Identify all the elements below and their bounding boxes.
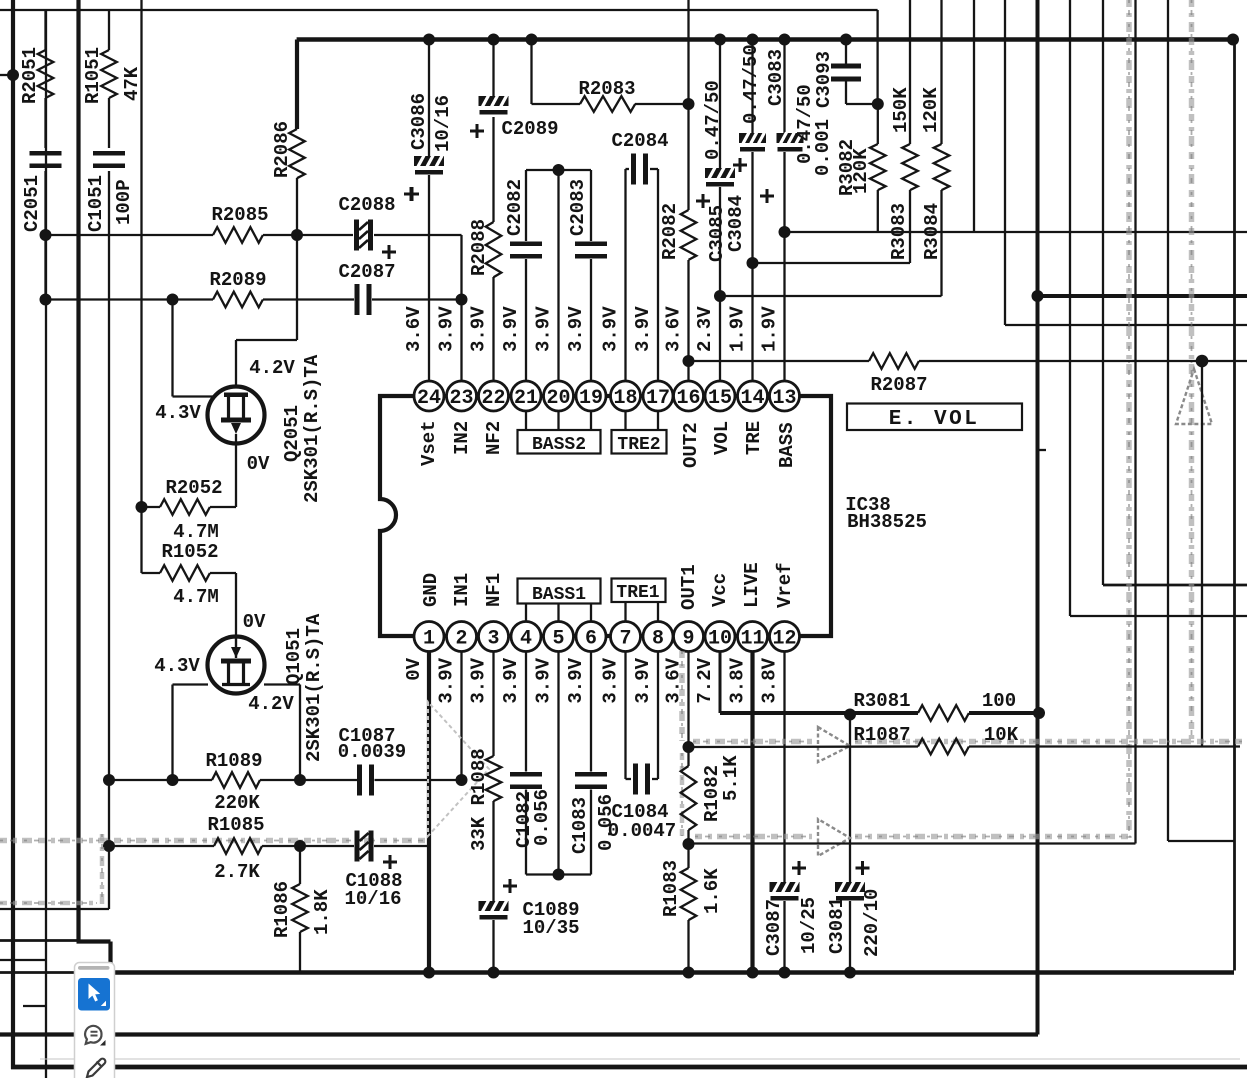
resistor R2052 4.7M [160,499,210,515]
svg-text:23: 23 [449,387,473,410]
transistor Q2051 2SK301(R.S)TA [208,387,265,444]
resistor R1086 1.8K [292,884,308,932]
svg-text:1.9V: 1.9V [759,306,781,352]
svg-text:R2083: R2083 [578,78,635,100]
svg-text:C1051: C1051 [85,175,107,232]
wire stub y=1006 [23,1005,46,1007]
node R1085/R1086 junction [294,840,306,852]
resistor R2085 [213,227,263,243]
node x=1037.5/y=296 [1032,290,1044,302]
node R2089/Q2051 gate [167,294,179,306]
wire C2082/C2083 tie bar y=170 [526,169,591,171]
pin 21 [511,381,541,411]
wire R1085 row y=846 [109,845,214,847]
gray highlighted trace column x=1191.5 [1189,0,1195,741]
svg-text:1: 1 [423,628,435,651]
resistor R1083 1.6K [681,868,697,920]
node R1089/IN1 junction [456,774,468,786]
svg-text:3.9V: 3.9V [436,306,458,352]
pin 10 [705,622,735,652]
node R2087/x=1202 [1196,355,1209,368]
capacitor C2088 (electrolytic) [354,220,373,251]
svg-text:BH38525: BH38525 [847,511,927,533]
gray highlighted trace R1087 row [693,739,812,745]
svg-text:150K: 150K [890,87,912,133]
pin 5 [544,622,574,652]
capacitor C1089 (electrolytic) 10/35 [479,901,509,920]
pin 14 [738,381,768,411]
wire bottommost thick rail y=1067 [11,1065,1247,1070]
svg-text:14: 14 [740,387,764,410]
svg-text:17: 17 [646,387,670,410]
node R2089 left [40,294,52,306]
wire row y=263 pin14 to R3083 [753,262,911,264]
svg-text:47K: 47K [121,66,143,101]
svg-text:C2084: C2084 [611,130,668,152]
pin 7 [611,622,641,652]
wire vertical rail x=46 [45,10,47,1078]
pin 11 [738,622,768,652]
wire pin16 column (OUT2) from top edge, R2082 [687,0,689,210]
wire C3093 column x=846 [845,40,847,65]
wire R2051 branch x=45.5 [44,10,46,50]
wire pin10 Vcc drop [719,652,722,714]
svg-text:4.2V: 4.2V [249,357,295,379]
wire pin15 column (VOL) with C3085 [719,40,721,169]
svg-text:0V: 0V [403,657,425,680]
svg-text:20: 20 [546,387,570,410]
wire R2052 row y=507 [142,506,161,508]
transistor Q1051 2SK301(R.S)TA [208,637,265,694]
svg-text:3.6V: 3.6V [403,306,425,352]
node tie bar/pin20 [553,164,565,176]
capacitor C1051 100P [93,151,125,156]
svg-text:9: 9 [682,628,694,651]
wire row y=325 [1005,324,1247,326]
wire left thick vertical rail x=13 [11,0,15,1069]
E.VOL block label box [847,404,1022,431]
svg-text:R2089: R2089 [209,269,266,291]
wire small stub right of x=1037.5 at y=450 [1038,449,1047,451]
svg-text:IN1: IN1 [451,573,473,607]
svg-text:100P: 100P [113,179,135,225]
wire R2085 row y=235 [46,234,214,236]
svg-text:7: 7 [619,628,631,651]
svg-text:1.9V: 1.9V [727,306,749,352]
svg-text:OUT1: OUT1 [678,564,700,610]
node R1089/Q1051 gate [167,774,179,786]
wire R1089 row y=780 [109,779,212,781]
svg-text:4.7M: 4.7M [173,586,219,608]
svg-text:220/10: 220/10 [861,889,883,957]
svg-text:C3087: C3087 [763,899,785,956]
wire vertical x=974 [973,0,975,232]
node bus/pin24 [423,34,435,46]
wire vertical x=1135.5 [1134,0,1136,844]
pin 18 [611,381,641,411]
UI comment tool icon [85,1026,101,1044]
wire Q2051 drain riser [235,340,237,392]
wire R1052 to Q1051 drain [235,573,237,637]
svg-text:8: 8 [652,628,664,651]
capacitor C2083 [575,242,607,247]
wire x=850 column from R3081 node with C3081 [849,713,851,882]
gray highlighted trace pin9 column [679,651,685,741]
svg-text:C2089: C2089 [501,118,558,140]
svg-text:4: 4 [520,628,532,651]
pin 6 [576,622,606,652]
resistor R1051 47K [101,50,117,98]
wire R1086 column [299,846,301,884]
svg-text:4.3V: 4.3V [155,402,201,424]
svg-text:10/25: 10/25 [798,897,820,954]
pin 19 [576,381,606,411]
svg-text:C1083: C1083 [569,797,591,854]
svg-text:BASS: BASS [776,422,798,468]
node C3093/R3082 [872,98,884,110]
svg-text:4.2V: 4.2V [248,693,294,715]
svg-text:1.6K: 1.6K [701,868,723,914]
node pin15/R3084 row [714,290,726,302]
svg-text:5: 5 [552,628,564,651]
wire vertical x=1070 [1069,0,1071,616]
wire bottom thick rail y=1034.5 [0,1032,1038,1036]
svg-text:3.9V: 3.9V [533,306,555,352]
svg-text:4.3V: 4.3V [154,655,200,677]
wire faint shadow line y=1059 [40,1058,1240,1060]
svg-text:3: 3 [487,628,499,651]
pin 1 [414,622,444,652]
svg-text:3.9V: 3.9V [500,657,522,703]
svg-text:R1087: R1087 [853,724,910,746]
svg-text:7.2V: 7.2V [694,657,716,703]
wire top rail drop to C3093/R3082 node [876,10,878,104]
pin 9 [674,622,704,652]
wire top horizontal rail y=10 [0,9,878,11]
capacitor C2051 [30,151,62,156]
pin 13 [770,381,800,411]
wire pin18 column [624,169,626,381]
node R1082/R1083 [683,838,695,850]
svg-text:C3081: C3081 [826,897,848,954]
pin 15 [705,381,735,411]
gray highlighted trace row y=836.5 [695,834,812,840]
wire pin13 column (BASS) with C3083 [783,40,785,134]
UI select tool button [78,978,110,1011]
gray hollow arrow up on x=1191.5 trace [1176,369,1212,424]
svg-text:R2052: R2052 [165,477,222,499]
wire vertical x=1103 [1102,0,1104,585]
pin 17 [643,381,673,411]
svg-text:10K: 10K [984,724,1019,746]
wire R2089 continuation x=45.5 [44,235,46,300]
svg-text:R2082: R2082 [659,203,681,260]
svg-text:4.7M: 4.7M [173,521,219,543]
wire R2089 row y=299.5 [46,298,214,300]
svg-text:2SK301(R.S)TA: 2SK301(R.S)TA [303,613,325,762]
capacitor C3087 (electrolytic) 10/25 [770,882,800,901]
svg-text:2SK301(R.S)TA: 2SK301(R.S)TA [301,354,323,503]
svg-text:R1051: R1051 [82,47,104,104]
wire pin3 NF1 column with R1088, C1089 [492,652,494,757]
wire R2086 to R2085 node [296,178,298,235]
svg-text:R1052: R1052 [161,541,218,563]
capacitor C1083 0.056 [575,772,607,777]
svg-text:100: 100 [982,690,1016,712]
svg-text:Q1051: Q1051 [283,628,305,685]
capacitor C3085 (electrolytic) 0.47/50 [705,168,735,187]
gray hollow arrow right on R1087 trace [818,727,850,762]
pin 20 [544,381,574,411]
svg-text:0.47/50: 0.47/50 [702,80,724,160]
svg-text:120K: 120K [850,148,872,194]
node bus/pin14 [747,34,759,46]
svg-text:NF1: NF1 [483,573,505,607]
wire pin19 column with C2083 [590,170,592,241]
wire top supply bus y=39.5 [297,37,1237,42]
svg-text:0V: 0V [243,611,266,633]
wire row y=843.5 from R1082/R1083 node to x=1135.5 [689,842,1136,844]
wire R2083 row y=104 [530,40,532,105]
svg-text:3.9V: 3.9V [565,657,587,703]
node junction on x=13 rail [7,69,19,81]
svg-text:0.056: 0.056 [531,789,553,846]
svg-text:33K R1088: 33K R1088 [468,748,490,851]
wire row y=232 from pin13 to right edge [785,231,1247,233]
wire stub to left rail at y=75 [0,74,13,76]
svg-text:10/35: 10/35 [522,917,579,939]
svg-text:3.6V: 3.6V [663,306,685,352]
svg-text:R1086: R1086 [271,881,293,938]
svg-text:220K: 220K [214,792,260,814]
svg-text:R2087: R2087 [870,374,927,396]
svg-text:11: 11 [740,628,764,651]
node R2052 left [136,501,148,513]
node R2083/pin16 [683,98,695,110]
wire vertical x=1202 (R1087 to R2087 node) [1201,361,1203,747]
svg-text:13: 13 [772,387,796,410]
svg-text:C2083: C2083 [567,179,589,236]
svg-text:15: 15 [708,387,732,410]
svg-text:3.9V: 3.9V [600,657,622,703]
resistor R1052 4.7M [160,565,210,581]
svg-text:3.8V: 3.8V [759,657,781,703]
wire thick row y=296 right [1038,294,1247,298]
resistor R1088 33K [486,756,502,801]
node OUT1 column/bus [683,967,695,979]
node pin16/R2087 [683,355,695,367]
UI pencil tool icon [87,1059,105,1077]
svg-text:C3093: C3093 [813,51,835,108]
BASS2 pin group box [525,411,527,430]
resistor R1082 5.1K [681,766,697,830]
wire pin4 column with C1082 [525,652,527,772]
svg-text:R2051: R2051 [19,47,41,104]
resistor R3084 120K [940,0,942,144]
resistor R2082 [681,210,697,260]
wire pin7 column [624,652,626,780]
pin 16 [674,381,704,411]
capacitor C2089 (electrolytic) [479,96,509,115]
svg-text:2.7K: 2.7K [214,861,260,883]
svg-text:3.9V: 3.9V [632,306,654,352]
svg-text:Vref: Vref [774,562,796,608]
capacitor C1084 0.0047 [633,764,638,795]
svg-text:2.3V: 2.3V [694,306,716,352]
svg-text:LIVE: LIVE [741,562,763,608]
capacitor C1088 (electrolytic) 10/16 [355,831,374,862]
wire row y=841 [1168,840,1235,842]
wire Q1051 gate/source leads [173,683,209,685]
gray hollow arrow right on y=836.5 trace [818,819,850,856]
wire thick vertical x=1037.5 [1036,0,1040,1035]
wire thick jog x=78.5 to x=110.5 [77,939,111,943]
svg-text:2: 2 [455,628,467,651]
capacitor C3093 0.001 [831,64,861,69]
svg-text:3.9V: 3.9V [533,657,555,703]
gray highlighted trace column x=102 [100,834,105,905]
svg-text:0.0039: 0.0039 [338,741,406,763]
svg-text:16: 16 [676,387,700,410]
wire row y=296 pin15 to R3084 [720,295,942,297]
svg-text:Vcc: Vcc [709,573,731,607]
svg-text:18: 18 [613,387,637,410]
resistor R3083 150K [909,0,911,144]
svg-text:C2082: C2082 [504,179,526,236]
node R1089/Q1051 source [294,774,306,786]
svg-text:3.9V: 3.9V [600,306,622,352]
resistor R2087 [869,353,919,369]
svg-text:3.8V: 3.8V [727,657,749,703]
wire thick vertical x=1234.5 [1233,40,1236,971]
wire vertical x=1168 [1167,0,1169,841]
svg-text:R3081: R3081 [853,690,910,712]
capacitor C2087 [355,284,360,315]
wire pin11 LIVE thick column [750,652,754,973]
svg-text:R1083: R1083 [660,860,682,917]
resistor R1085 2.7K [214,838,262,854]
capacitor C2084 [631,154,636,185]
svg-text:TRE2: TRE2 [617,435,660,455]
svg-text:VOL: VOL [711,421,733,455]
wire R1087 row y=746.5 [689,745,919,748]
svg-text:BASS2: BASS2 [532,435,586,455]
resistor R2089 [213,292,263,308]
wire C2084 stubs [626,168,630,170]
node tie bar/pin5 [553,869,565,881]
svg-text:Vset: Vset [418,420,440,466]
capacitor C3083 (electrolytic) 0.47/50 [777,133,804,152]
svg-text:R2088: R2088 [468,219,490,276]
node R2085 left [40,229,52,241]
svg-text:120K: 120K [920,87,942,133]
wire row y=616 [1070,615,1247,617]
svg-text:NF2: NF2 [483,421,505,455]
svg-text:C3086: C3086 [408,93,430,150]
svg-text:1.8K: 1.8K [311,889,333,935]
svg-text:5.1K: 5.1K [720,755,742,801]
pin 22 [479,381,509,411]
svg-text:10/16: 10/16 [344,888,401,910]
node pin13/R3082 row [779,226,791,238]
svg-text:21: 21 [514,387,538,410]
node Vref/bus [779,967,791,979]
pin 12 [770,622,800,652]
wire y=940.5 horizontal [0,939,79,942]
gray highlighted trace exit left y=903 [0,901,97,906]
node bus/pin13 [779,34,791,46]
svg-text:0.47/50: 0.47/50 [740,44,762,124]
wire vertical x=1005 [1004,0,1006,325]
gray highlighted trace column x=1129 [1126,0,1132,838]
svg-text:GND: GND [420,573,442,607]
svg-text:R2085: R2085 [211,204,268,226]
svg-text:C2051: C2051 [21,175,43,232]
wire bus drop to R2086 [295,40,299,130]
wire pin9 OUT1 column with R1082,R1083 [687,652,689,767]
svg-text:6: 6 [585,628,597,651]
wire pin24 column (Vset) with C3086 [428,40,430,157]
wire pin1 GND thick column [427,652,431,973]
svg-text:3.9V: 3.9V [468,657,490,703]
svg-text:C2088: C2088 [338,194,395,216]
wire R1052 row y=573 [142,572,161,574]
pin 24 [414,381,444,411]
svg-text:C3084: C3084 [725,195,747,252]
wire C1084 stubs [626,778,632,780]
svg-text:IN2: IN2 [451,421,473,455]
node bus/pin15 [714,34,726,46]
pin 3 [479,622,509,652]
svg-text:3.9V: 3.9V [468,306,490,352]
resistor R1087 10K [918,739,969,755]
node OUT1/R1087 [683,741,695,753]
node pin14/R3083 row [747,257,759,269]
wire vertical rail x=141.5 [140,0,142,573]
resistor R2088 [486,222,502,277]
svg-text:R1089: R1089 [205,750,262,772]
svg-text:12: 12 [772,628,796,651]
svg-text:0V: 0V [247,453,270,475]
resistor R2051 [38,50,54,98]
wire pin22 column (NF2) with C2089, R2088 [492,40,494,97]
wire thick vertical rail x=78.5 [76,0,80,942]
svg-text:BASS1: BASS1 [532,585,586,605]
gray highlighted trace along R1085 row [0,838,427,844]
node GND/bus [423,967,435,979]
wire pin23 column (IN2) [460,300,462,382]
node LIVE/bus [747,967,759,979]
svg-text:OUT2: OUT2 [680,422,702,468]
svg-text:C3083: C3083 [765,49,787,106]
resistor R3082 120K [877,104,879,144]
node R3081 row/x=850 [844,709,856,721]
wire R3081 thick row y=713 [720,711,918,715]
svg-text:19: 19 [579,387,603,410]
svg-text:R2086: R2086 [271,121,293,178]
ghost triangle (bleed-through) near IN1 [428,702,489,836]
svg-text:3.9V: 3.9V [565,306,587,352]
wire pin8 column [657,652,659,780]
svg-text:3.9V: 3.9V [436,657,458,703]
capacitor C3084 (electrolytic) 0.47/50 [739,133,766,152]
wire pin21 column with C2082 [525,170,527,241]
wire row y=585 [1103,584,1247,587]
TRE1 pin group box [624,602,626,622]
svg-text:0.0047: 0.0047 [608,820,676,842]
svg-text:24: 24 [417,387,441,410]
pin 8 [643,622,673,652]
